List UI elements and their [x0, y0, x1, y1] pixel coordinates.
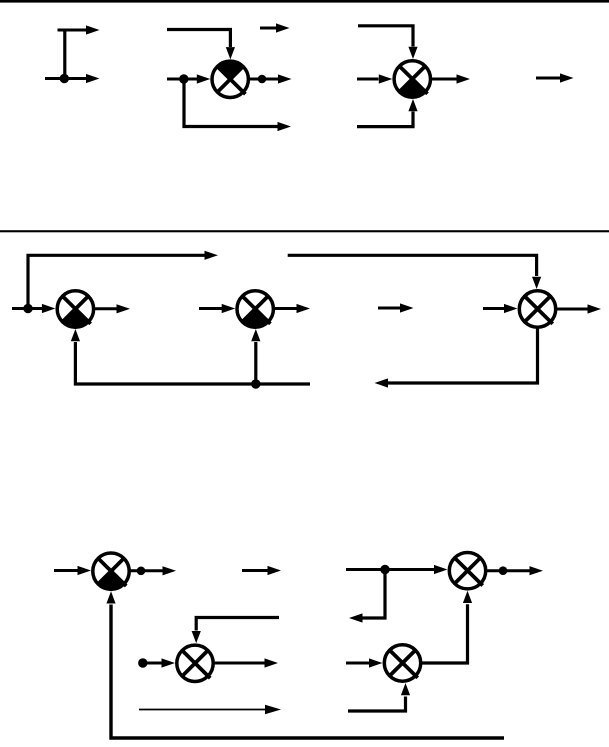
arrow: S9-to-S8 head up — [463, 591, 472, 603]
arrow: S2 top input head — [408, 47, 417, 59]
summer S9 (no fill) — [384, 645, 420, 681]
wire: S6 output — [129, 569, 163, 572]
wire: S5 output — [556, 308, 588, 311]
wire: S3 takeoff up-right — [28, 255, 205, 308]
summer S1 (top quadrant filled) — [212, 61, 248, 97]
arrow: S8 left input head — [434, 565, 448, 574]
wire: takeoff vertical — [63, 29, 66, 79]
wire: S9 bottom input from left — [348, 697, 406, 712]
wire: S8 takeoff down-left — [363, 570, 386, 619]
summer S3 (bottom quadrant filled) — [57, 291, 93, 327]
arrow: S5 top input head — [532, 277, 541, 289]
wire: S5 left input — [483, 307, 505, 310]
arrow: S3 output head — [117, 304, 131, 313]
arrow: S9 bottom input head up — [401, 683, 410, 695]
wire: S7 top input from right — [196, 618, 279, 631]
node: S3 input dot — [23, 304, 32, 313]
wire: S6 left input — [54, 569, 78, 572]
summer S8 (no fill) — [449, 553, 485, 589]
wire: long top wire into S5 — [288, 255, 537, 276]
wire: S2 bottom input bend — [357, 112, 413, 127]
arrow: floating arrow between S4 and S5 — [378, 303, 414, 312]
arrow: S7 output head — [265, 658, 279, 667]
wire: S5 down-left feedback — [388, 327, 538, 383]
arrow: S8 output head — [530, 566, 544, 575]
wire: S4 feedback vertical — [254, 342, 257, 384]
arrow: S1 left input head — [197, 74, 211, 83]
wire: takeoff input horizontal — [45, 77, 86, 80]
wire: S8 output — [486, 569, 530, 572]
arrow: S1 takeoff head — [278, 122, 292, 131]
arrow: S6 feedback head up — [106, 591, 115, 603]
arrow: S6 output head — [163, 566, 177, 575]
arrow: S6 left input head — [78, 566, 92, 575]
wire: S2 top input bend — [358, 26, 413, 47]
arrow: S7 top input head down — [192, 631, 201, 643]
wire: S2 output — [430, 78, 456, 81]
wire: S6 long feedback from bottom — [111, 605, 504, 739]
summer S5 (no fill) — [519, 291, 555, 327]
arrow: S5 output head — [588, 304, 602, 313]
summer S4 (bottom quadrant filled) — [237, 291, 273, 327]
arrow: S2 bottom input head — [408, 99, 417, 111]
node: S7 input dot — [138, 658, 147, 667]
top border line — [0, 0, 609, 3]
node: S1 input dot — [179, 74, 188, 83]
wire: S3 feedback bottom — [75, 342, 310, 384]
node: S1 output dot — [258, 75, 267, 84]
wire: takeoff top horizontal — [58, 29, 87, 32]
wire: S1 left input — [167, 78, 197, 81]
wire: S9 left input — [346, 662, 372, 665]
node: takeoff dot — [60, 74, 69, 83]
arrow: floating arrow right of band1 — [536, 73, 574, 82]
arrow: S9 left input head — [369, 658, 383, 667]
arrow: S5 left input head — [504, 304, 518, 313]
wire: S9 output up into S8 — [421, 604, 468, 663]
arrow: S4 left input head — [222, 304, 236, 313]
node: S8 input dot — [380, 565, 389, 574]
arrow: takeoff lower output — [86, 74, 100, 83]
arrow: S4 feedback head up — [251, 329, 260, 341]
arrow: S1 output head — [278, 74, 292, 83]
arrow: S2 output head — [457, 74, 471, 83]
wire: S2 left input — [357, 78, 379, 81]
summer S2 (bottom quadrant filled) — [394, 61, 430, 97]
wire: S8 left input — [346, 568, 435, 571]
arrow: takeoff upper output — [86, 25, 100, 34]
node: S8 output dot — [499, 566, 508, 575]
wire: S4 output — [273, 307, 296, 310]
wire: S4 left input — [199, 307, 223, 310]
wire: S7 output — [213, 662, 264, 665]
arrow: S2 left input head — [379, 74, 393, 83]
arrow: S8 takeoff left head — [349, 613, 363, 622]
node: S4 feedback dot — [251, 379, 260, 388]
arrow: S3 takeoff head — [205, 251, 219, 260]
arrow: S1 top input head — [226, 47, 235, 59]
summer S6 (bottom quadrant filled) — [93, 553, 129, 589]
arrow: S4 output head — [297, 304, 311, 313]
arrow: S7 left input head — [162, 658, 176, 667]
wire: S3 output — [93, 307, 116, 310]
arrow: floating arrow right of S6 — [242, 566, 281, 575]
wire: S1 output — [248, 78, 278, 81]
separator line — [0, 230, 609, 232]
wire: S3 left input — [12, 307, 44, 310]
arrow: thin long arrow below S7 — [139, 705, 281, 715]
wire: S7 left input — [143, 662, 164, 665]
wire: S1 takeoff down-right — [184, 79, 278, 127]
node: S6 output dot — [137, 567, 146, 576]
arrow: floating arrow above S1 output — [260, 23, 290, 32]
wire: S1 top input bend — [167, 30, 230, 48]
summer S7 (no fill) — [177, 645, 213, 681]
arrow: S3 feedback head up — [71, 329, 80, 341]
arrow: S5 feedback left head — [375, 378, 389, 387]
arrow: S3 left input head — [42, 304, 56, 313]
